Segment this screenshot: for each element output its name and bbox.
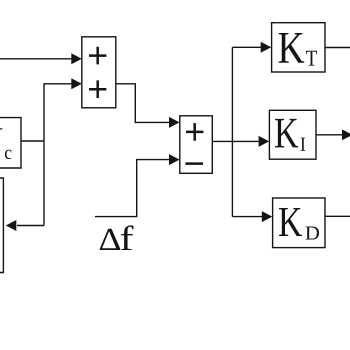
wire Δf to S2 (− input) [95,154,180,217]
wire ΔPc output to node [21,140,44,142]
block ΔPc (cut off at left edge) [0,118,21,168]
label Δf [100,225,134,250]
wire input to summer S1 (top +) [0,53,82,64]
wire KT output [325,47,350,49]
block KT [272,23,325,72]
block KD [273,198,325,248]
block KI [269,110,316,159]
wire node to lower-left block (feedback arrow) [6,220,44,231]
lower-left block (cut off at left edge) [0,178,3,273]
distribution bus (vertical) [231,47,233,216]
wire bus to KD input [232,211,272,222]
wire KI output (arrow) [316,129,350,140]
summing junction S2 [180,116,213,174]
wire S2 output to KI input (through node) [212,136,269,147]
label c (subscript in ΔPc box) [5,150,12,159]
wire S1 output to S2 (+ input) [116,84,180,128]
summing junction S1 [82,37,116,108]
wire bus to KT input [232,42,271,53]
wire node to S1 lower + input [44,78,82,225]
wire KD output [325,215,350,217]
